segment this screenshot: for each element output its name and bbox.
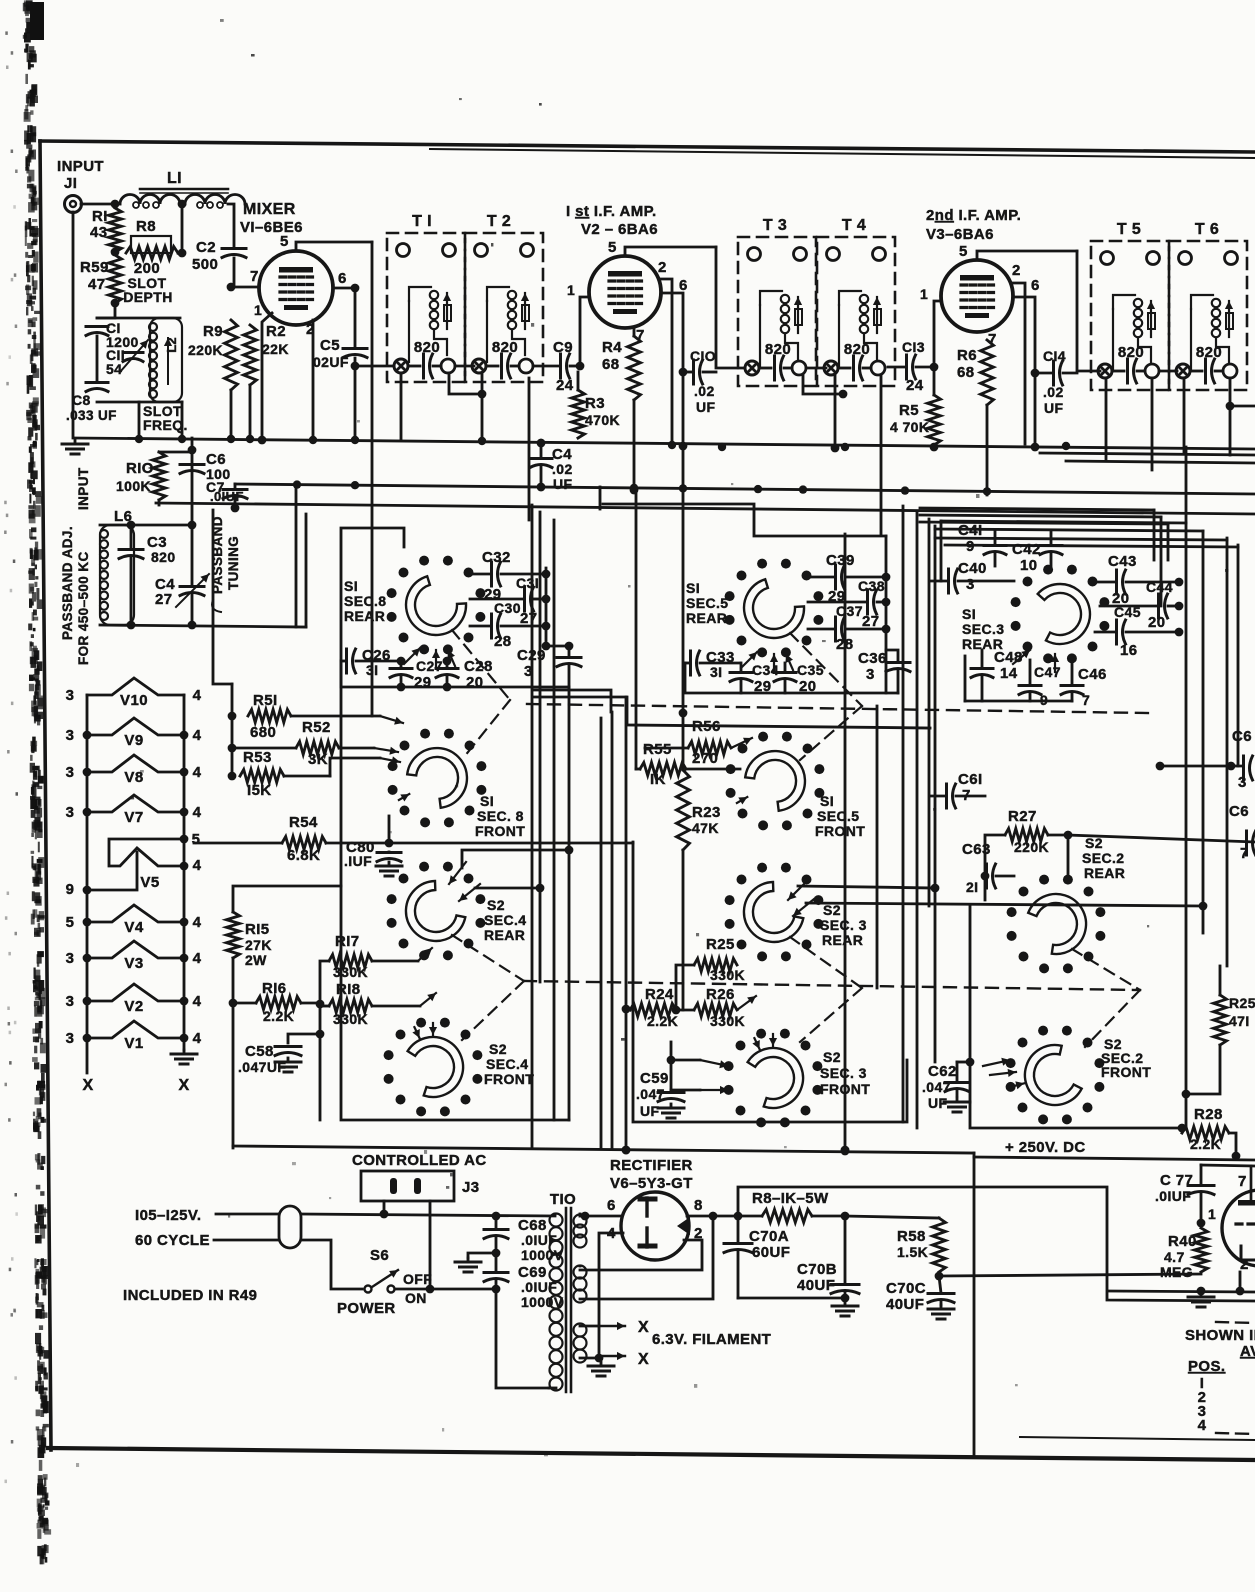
svg-text:4: 4 — [1198, 1417, 1207, 1434]
wire left rail down — [232, 1003, 235, 1148]
svg-text:V2: V2 — [124, 998, 143, 1015]
node c30 — [542, 622, 551, 631]
junction fil L2 — [83, 918, 92, 927]
node c45 — [1175, 628, 1184, 637]
capacitor C44 — [1100, 579, 1179, 631]
svg-text:POWER: POWER — [337, 1300, 396, 1317]
wire sec4r out1 — [462, 850, 569, 868]
label POWER — [337, 1300, 396, 1317]
wire ac top — [216, 1214, 555, 1216]
node mixer pin7 — [227, 283, 236, 292]
wire L6 bottom rail — [100, 625, 306, 627]
svg-text:V4: V4 — [124, 919, 143, 936]
filament V3 — [87, 941, 184, 972]
svg-text:29: 29 — [754, 678, 772, 695]
wire sec2 top — [579, 1265, 582, 1268]
node r24 R — [672, 1006, 681, 1015]
svg-text:T 2: T 2 — [487, 213, 511, 230]
junction — [227, 435, 235, 443]
node rh904 — [1199, 902, 1208, 911]
junction — [178, 435, 186, 443]
svg-text:FREQ.: FREQ. — [143, 417, 188, 433]
arrow sec3r in2 — [793, 899, 814, 916]
pin4 V5 — [193, 857, 202, 874]
junction — [135, 435, 143, 443]
switch S2 SEC.3 REAR — [725, 863, 824, 962]
label ON — [405, 1290, 427, 1306]
svg-text:6.8K: 6.8K — [287, 847, 320, 864]
svg-text:8: 8 — [694, 1197, 703, 1214]
junction busB — [630, 484, 638, 492]
svg-text:SI: SI — [686, 580, 700, 596]
wire rv4 — [1185, 447, 1188, 1094]
pin4 V6 — [607, 1225, 616, 1242]
wire R8 right — [178, 252, 182, 255]
wire T4 slug down — [880, 375, 883, 534]
X left — [82, 1077, 93, 1094]
resistor R4 — [602, 336, 641, 400]
node c29 link — [542, 642, 551, 651]
svg-text:R56: R56 — [692, 718, 721, 735]
node input top — [111, 200, 120, 209]
svg-text:X: X — [178, 1077, 189, 1094]
svg-text:14: 14 — [1000, 665, 1018, 682]
capacitor C47 — [1019, 660, 1061, 708]
wire j3 left — [383, 1201, 386, 1214]
wire lv2 — [531, 505, 534, 1148]
node r29 join — [1182, 1090, 1191, 1099]
wire rv7 — [1226, 538, 1229, 966]
svg-text:SI: SI — [480, 793, 494, 809]
svg-text:C30: C30 — [494, 600, 521, 616]
bus bottom — [233, 1146, 974, 1153]
wire r27 right — [1068, 835, 1255, 842]
node c77 bot — [1197, 1219, 1206, 1228]
wire r29 up — [1219, 966, 1222, 995]
wire V2 pin5 — [625, 247, 716, 256]
svg-text:3: 3 — [66, 993, 75, 1010]
junction busB — [799, 485, 807, 493]
capacitor C48 — [971, 649, 1023, 701]
mech link long dash2 — [524, 981, 1140, 990]
svg-text:.IUF: .IUF — [344, 853, 372, 869]
svg-text:1.5K: 1.5K — [897, 1244, 928, 1260]
svg-text:T 4: T 4 — [842, 217, 866, 234]
svg-text:SEC.4: SEC.4 — [486, 1056, 528, 1072]
node R10 top — [188, 446, 197, 455]
svg-text:4: 4 — [193, 914, 202, 931]
svg-text:I5K: I5K — [247, 782, 272, 799]
resistor R53 — [240, 749, 330, 799]
svg-text:FRONT: FRONT — [484, 1071, 534, 1087]
svg-text:CONTROLLED AC: CONTROLLED AC — [352, 1152, 487, 1169]
svg-text:5: 5 — [959, 243, 968, 260]
svg-text:820: 820 — [1118, 344, 1144, 361]
pin4 V8 — [193, 764, 202, 781]
junction fil R2 — [180, 954, 189, 963]
trimmer cap T4 — [824, 361, 838, 375]
svg-text:R3: R3 — [585, 395, 605, 412]
capacitor C7 — [206, 479, 247, 509]
wire to T1 — [355, 365, 394, 368]
wire sw to caps — [395, 1288, 496, 1291]
svg-text:X: X — [638, 1351, 649, 1368]
transformer T10 sec2 — [574, 1266, 587, 1303]
svg-text:SEC.8: SEC.8 — [344, 593, 386, 609]
wire primary top — [0, 0, 1, 1]
node box3 — [1178, 1124, 1187, 1133]
svg-text:820: 820 — [844, 341, 870, 358]
bus C — [156, 503, 1255, 514]
wire T1-T2 — [455, 365, 474, 368]
node C9 out — [576, 362, 585, 371]
label S1 SEC5 REAR — [686, 580, 728, 626]
resistor R6 — [957, 340, 994, 405]
node sec3r out1 — [931, 884, 940, 893]
slug T3 — [792, 361, 806, 375]
label 250v — [1005, 1139, 1086, 1156]
wire C5 col — [354, 288, 357, 438]
capacitor C27 — [390, 658, 443, 691]
svg-text:REAR: REAR — [822, 932, 863, 948]
mech link dash sec3 — [790, 937, 862, 1042]
svg-text:S2: S2 — [1085, 835, 1103, 851]
svg-text:3: 3 — [1238, 774, 1247, 791]
svg-text:V6–5Y3-GT: V6–5Y3-GT — [610, 1175, 693, 1192]
svg-text:4: 4 — [193, 804, 202, 821]
wire r55 out — [686, 768, 740, 771]
svg-text:20: 20 — [799, 678, 817, 695]
bus 250v — [974, 1157, 1255, 1160]
connector J3 — [361, 1171, 480, 1201]
filament V10 — [87, 678, 184, 709]
mech link dash sec8 — [452, 630, 510, 757]
node v4 g1 — [1197, 1287, 1206, 1296]
node c69 top — [492, 1285, 501, 1294]
transformer T10 sec3 — [574, 1324, 587, 1363]
wire V1 pin7 — [234, 286, 259, 289]
svg-text:C70B: C70B — [797, 1261, 837, 1278]
svg-text:2I: 2I — [966, 879, 978, 895]
svg-text:SEC. 3: SEC. 3 — [820, 917, 867, 933]
svg-text:270: 270 — [692, 750, 718, 767]
arrow sec4r in1 — [449, 862, 466, 884]
svg-text:C39: C39 — [826, 552, 855, 569]
svg-text:C2: C2 — [196, 239, 216, 256]
wire rh 904 — [806, 903, 1203, 906]
svg-text:27: 27 — [520, 610, 538, 627]
pin6 V2 — [679, 277, 688, 294]
svg-text:4: 4 — [193, 993, 202, 1010]
node c68 bot — [492, 1249, 501, 1258]
wire V2 pin2 — [661, 279, 672, 440]
node c27t — [397, 657, 406, 666]
switch S2 SEC.4 FRONT — [384, 1018, 483, 1117]
wire T6 trim down — [1183, 378, 1186, 452]
node V3 pin6 bus — [1031, 443, 1040, 452]
resistor R10 — [116, 452, 166, 500]
wire inside T5 — [1112, 370, 1145, 373]
svg-text:ON: ON — [405, 1290, 427, 1306]
svg-text:3I: 3I — [710, 664, 722, 680]
svg-text:1: 1 — [1208, 1206, 1216, 1222]
label S1 SEC8 FRONT — [475, 793, 525, 839]
svg-text:LI: LI — [167, 170, 182, 187]
svg-text:C8: C8 — [72, 392, 91, 408]
border frame top — [40, 141, 1255, 152]
wire v4 left — [0, 0, 1, 1]
svg-text:330K: 330K — [333, 1011, 368, 1027]
inductor L6 — [100, 508, 134, 625]
svg-text:470K: 470K — [585, 412, 620, 428]
node C14 left — [1031, 369, 1040, 378]
svg-text:4: 4 — [193, 687, 202, 704]
switch S2 SEC.2 FRONT right — [1006, 1026, 1105, 1125]
svg-text:SEC.5: SEC.5 — [817, 808, 859, 824]
transformer T5 — [1091, 221, 1169, 390]
pin3 V7 — [66, 804, 75, 821]
node R51 — [228, 712, 237, 721]
filament V9 — [87, 718, 184, 749]
wire mid step A — [533, 697, 930, 728]
label S2 SEC4 FRONT — [484, 1041, 534, 1087]
svg-text:I05–I25V.: I05–I25V. — [135, 1207, 201, 1224]
ground t10 — [588, 1362, 614, 1376]
svg-text:R52: R52 — [302, 719, 331, 736]
pin4 V10 — [193, 687, 202, 704]
resistor R29 — [1214, 995, 1255, 1045]
svg-text:220K: 220K — [188, 342, 223, 358]
pin1 V2 — [567, 282, 575, 298]
slug T6 — [1223, 364, 1237, 378]
svg-text:27: 27 — [155, 591, 173, 608]
svg-text:INCLUDED IN R49: INCLUDED IN R49 — [123, 1287, 257, 1304]
svg-text:28: 28 — [494, 633, 512, 650]
junction fil R — [180, 768, 189, 777]
svg-text:47I: 47I — [1229, 1013, 1250, 1029]
svg-text:V2 – 6BA6: V2 – 6BA6 — [581, 221, 658, 238]
node T4 out junction — [839, 390, 848, 399]
wire v192 — [191, 438, 194, 525]
wire mid step B — [533, 690, 611, 712]
svg-text:C6I: C6I — [958, 771, 983, 788]
svg-text:INPUT: INPUT — [57, 158, 104, 175]
arrow sec3r in1 — [788, 882, 806, 900]
svg-text:6: 6 — [338, 270, 347, 287]
wire sec3r arrows — [1013, 650, 1059, 672]
slug T5 — [1145, 364, 1159, 378]
capacitor C36 — [858, 650, 910, 693]
svg-text:SEC. 8: SEC. 8 — [477, 808, 524, 824]
wire L6 top rail — [100, 524, 192, 527]
bus ground A — [75, 438, 1255, 449]
label shown in — [1185, 1327, 1255, 1344]
pin2 V2 — [658, 259, 667, 276]
svg-text:RI7: RI7 — [335, 933, 360, 950]
wire lv12 — [902, 506, 905, 1122]
node c32 — [542, 570, 551, 579]
svg-text:27: 27 — [862, 613, 880, 630]
pin6 V3 — [1031, 277, 1040, 294]
filament V8 — [87, 755, 184, 786]
wire T5-T6 — [1159, 370, 1177, 373]
svg-text:C43: C43 — [1108, 553, 1137, 570]
svg-text:3: 3 — [66, 727, 75, 744]
node c63 — [981, 872, 990, 881]
slug T4 — [871, 361, 885, 375]
svg-text:C58: C58 — [245, 1043, 274, 1060]
svg-text:60UF: 60UF — [752, 1244, 790, 1261]
svg-text:FRONT: FRONT — [815, 823, 865, 839]
capacitor C35 — [774, 662, 824, 695]
pin1 V4 — [1208, 1206, 1216, 1222]
svg-text:C59: C59 — [640, 1070, 669, 1087]
svg-text:C70C: C70C — [886, 1280, 926, 1297]
switch S1 SEC.3 REAR right — [1011, 565, 1110, 664]
svg-text:R55: R55 — [643, 741, 672, 758]
ground v4 — [1188, 1293, 1214, 1307]
svg-text:330K: 330K — [710, 967, 745, 983]
node C7 bot — [231, 504, 240, 513]
wire v4 pin2 — [1239, 1272, 1242, 1291]
svg-text:820: 820 — [492, 339, 518, 356]
svg-text:SI: SI — [820, 793, 834, 809]
node r58 bot — [935, 1272, 944, 1281]
pin 5 label V1 — [280, 233, 289, 250]
resistor R25 — [676, 936, 745, 1006]
pin 7 label V1 — [250, 268, 259, 285]
svg-text:1: 1 — [254, 302, 262, 318]
wire ac bot — [214, 1239, 279, 1242]
junction fil L2 — [83, 954, 92, 963]
wire T1 trim down — [400, 373, 403, 440]
svg-text:5: 5 — [280, 233, 289, 250]
svg-text:820: 820 — [1196, 344, 1222, 361]
svg-text:820: 820 — [765, 341, 791, 358]
wire inside T4 — [838, 367, 871, 370]
ground input — [62, 440, 88, 454]
wire rv3 — [1167, 524, 1170, 560]
wire T4 trim down2 — [834, 375, 837, 448]
wire inside T1 — [408, 365, 441, 368]
wire R15 bot — [232, 958, 235, 1003]
svg-text:.033 UF: .033 UF — [66, 408, 117, 423]
capacitor C33 — [685, 649, 740, 680]
svg-text:C70A: C70A — [749, 1228, 789, 1245]
svg-text:UF: UF — [553, 476, 573, 492]
node c64 — [1156, 762, 1165, 771]
svg-text:40UF: 40UF — [886, 1296, 924, 1313]
pin7 V2 — [636, 327, 645, 344]
label 6.3V filament — [652, 1331, 771, 1348]
svg-text:100K: 100K — [116, 478, 151, 494]
switch S1 SEC.8 FRONT — [388, 729, 487, 828]
svg-text:2.2K: 2.2K — [647, 1013, 678, 1029]
svg-text:R58: R58 — [897, 1228, 926, 1245]
included label — [123, 1287, 257, 1304]
wire J1 down — [72, 212, 75, 438]
svg-text:C48: C48 — [994, 649, 1023, 666]
junction V5c — [83, 886, 92, 895]
junction fil R — [180, 808, 189, 817]
resistor R54 — [282, 814, 326, 864]
wire R54 right — [326, 842, 389, 845]
pin 1 label V1 — [254, 302, 262, 318]
capacitor C3 — [119, 525, 176, 625]
capacitor C8 — [66, 383, 117, 424]
node sec3 bot — [595, 1354, 604, 1363]
svg-text:C36: C36 — [858, 650, 887, 667]
node R8 right — [178, 249, 187, 258]
svg-text:47K: 47K — [692, 820, 719, 836]
node R1 bottom — [111, 248, 120, 257]
ground C62 — [944, 1098, 970, 1112]
svg-text:4: 4 — [193, 727, 202, 744]
resistor R26 — [676, 986, 756, 1029]
svg-text:R9: R9 — [203, 323, 223, 340]
node V1 pin1 bus — [258, 436, 267, 445]
node C10 left — [679, 368, 688, 377]
svg-text:VI–6BE6: VI–6BE6 — [240, 219, 303, 236]
wire T6 out right — [1230, 378, 1255, 406]
transformer T6 — [1169, 221, 1247, 390]
svg-text:C62: C62 — [928, 1063, 957, 1080]
node R18 left — [316, 1000, 325, 1009]
wire r29 down — [1186, 1045, 1220, 1129]
wire table box — [973, 1157, 976, 1457]
resistor R59 — [80, 255, 122, 303]
wire v320 b — [319, 1034, 322, 1120]
resistor R3 — [572, 390, 621, 438]
ground C59 — [658, 1104, 684, 1118]
capacitor C65 — [1229, 803, 1255, 862]
wire cluster2 box — [633, 842, 907, 1122]
trimmer cap T3 — [745, 361, 759, 375]
junction busB — [983, 487, 991, 495]
svg-text:S6: S6 — [370, 1247, 389, 1264]
junction fil R — [180, 731, 189, 740]
svg-text:C45: C45 — [1114, 604, 1141, 620]
transformer T1 — [387, 213, 465, 382]
tube V6 — [621, 1192, 690, 1260]
junction fil L — [83, 808, 92, 817]
node C4 bot — [537, 483, 546, 492]
mech link long dash — [527, 704, 1148, 713]
resistor R15 — [227, 912, 272, 968]
node c37 — [882, 625, 891, 634]
svg-text:54: 54 — [106, 361, 122, 377]
svg-text:RECTIFIER: RECTIFIER — [610, 1157, 693, 1174]
wire inside T6 — [1190, 370, 1223, 373]
svg-text:3: 3 — [66, 1030, 75, 1047]
node sw out — [426, 1285, 435, 1294]
svg-text:V1: V1 — [124, 1035, 143, 1052]
pin 2 label V1 — [306, 321, 315, 338]
capacitor C4 passband — [155, 525, 209, 625]
node c43 — [1175, 578, 1184, 587]
svg-text:R53: R53 — [243, 749, 272, 766]
node R4 bus — [630, 486, 639, 495]
svg-text:47: 47 — [88, 276, 106, 293]
svg-text:10: 10 — [1020, 557, 1038, 574]
svg-text:4: 4 — [193, 950, 202, 967]
junction fil R2 — [180, 1034, 189, 1043]
svg-text:7: 7 — [1238, 1173, 1247, 1190]
resistor R56 — [645, 718, 752, 767]
node T6 out — [1226, 402, 1235, 411]
wire R15 top — [233, 886, 341, 912]
node c28t — [443, 657, 452, 666]
